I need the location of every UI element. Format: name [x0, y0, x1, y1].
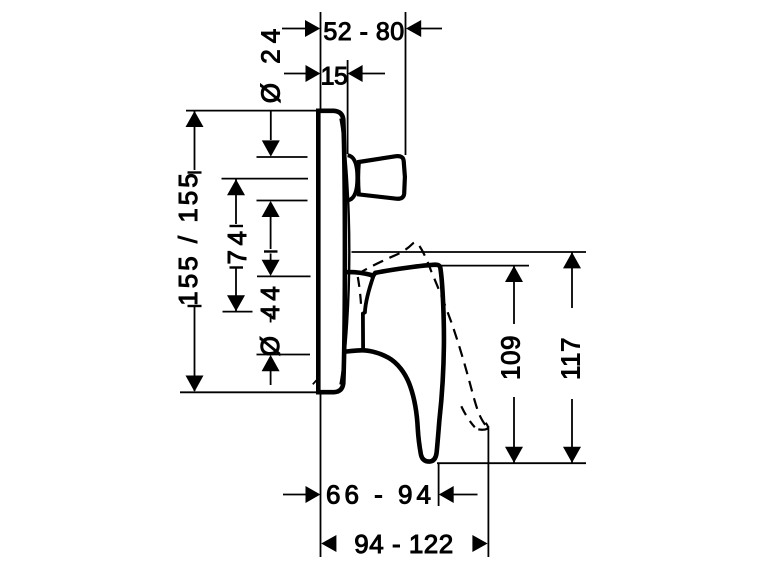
dimension 117 line upper: [571, 252, 573, 308]
knob body: [358, 156, 405, 199]
dimension 52-80 left tail: [282, 28, 306, 30]
dimension 52-80 right arrow: [406, 20, 421, 37]
dimension 94-122 left arrow: [321, 535, 336, 552]
dimension 15 right arrow: [348, 65, 363, 82]
handle collar joint line: [363, 277, 373, 350]
dimension 15 left tail: [284, 73, 307, 75]
svg-text:117: 117: [556, 337, 586, 380]
dimension 117 bottom arrow: [563, 447, 581, 463]
faceplate front rim arc: [341, 119, 350, 385]
extension line 155 bottom: [180, 391, 318, 393]
dashed collar line rotated position: [358, 277, 361, 309]
dimension 94-122 right arrow: [472, 535, 487, 552]
extension line diameter24 bottom / 44 top: [257, 200, 308, 202]
dimension 155 upper break tick: [188, 171, 202, 173]
dimension 155 lower break tick: [188, 305, 202, 307]
inter label tick: [270, 314, 272, 323]
wall reference line upper: [320, 12, 322, 110]
svg-text:109: 109: [496, 335, 526, 380]
dimension 15 left arrow: [306, 65, 321, 82]
dimension 66-94 right arrow: [439, 486, 454, 503]
corner mark at plate bottom: [313, 380, 317, 385]
dimension 117 line lower: [571, 399, 573, 463]
extension line knob axis (74 top): [222, 178, 309, 180]
dimension 44 break tick: [264, 250, 278, 252]
dimension 44 connecting line b: [270, 254, 272, 261]
svg-text:66 - 94: 66 - 94: [326, 480, 435, 510]
svg-text:15: 15: [321, 63, 348, 91]
knob base bump: [348, 155, 358, 200]
extension line 52-80 right: [405, 12, 407, 155]
dimension 109 top arrow: [505, 266, 523, 282]
dimension 74 line lower: [235, 268, 237, 312]
diameter44 bottom arrow tail: [270, 371, 272, 385]
extension line diameter24 top tangent: [257, 156, 308, 158]
svg-text:94 - 122: 94 - 122: [354, 529, 453, 559]
dimension 109 bottom arrow: [505, 447, 523, 463]
dimension 44 connecting line: [270, 216, 272, 249]
dimension 155 line lower: [194, 306, 196, 391]
faceplate outline: [318, 111, 345, 392]
diameter24 hanger line: [270, 111, 272, 140]
extension line 74 bottom: [223, 311, 253, 313]
dimension 74 lower break tick: [230, 266, 244, 268]
dashed tail back edge: [460, 403, 475, 427]
dimension 109 line lower: [513, 397, 515, 463]
svg-text:155 / 155: 155 / 155: [173, 170, 203, 305]
extension line 44 bottom: [257, 275, 311, 277]
dimension 66-94 left tail: [283, 494, 307, 496]
wall reference line lower: [320, 393, 322, 557]
dimension 74 bottom arrow: [227, 295, 245, 311]
dimension 52-80 right tail: [421, 28, 442, 30]
dimension 15 right tail: [363, 73, 386, 75]
extension line 15 right: [347, 60, 349, 154]
extension line diameter44 bottom: [257, 354, 311, 356]
dimension 155 bottom arrow: [186, 376, 204, 392]
extension line 94-122 right: [487, 426, 489, 557]
extension line 117 top: [352, 251, 587, 253]
dimension 44 bottom arrow: [262, 260, 280, 276]
dimension 66-94 left arrow: [306, 486, 321, 503]
extension line bottom shared: [437, 462, 586, 464]
dimension 66-94 right tail: [454, 494, 478, 496]
svg-text:52 - 80: 52 - 80: [323, 18, 404, 46]
dimension 74 top arrow: [227, 179, 245, 195]
dashed handle rotated position: [360, 242, 486, 425]
dimension 44 top arrow: [262, 201, 280, 217]
dimension 74 upper break tick: [230, 225, 244, 227]
extension line 109 top: [440, 265, 529, 267]
diameter44 bottom arrow: [262, 355, 280, 371]
handle lever outline: [344, 265, 444, 462]
svg-text:Ø 24: Ø 24: [256, 23, 286, 103]
dimension 117 top arrow: [563, 252, 581, 268]
dimension 74 line upper: [235, 179, 237, 224]
extension line 155 top: [186, 110, 318, 112]
dimension 155 line upper: [194, 111, 196, 170]
dimension 52-80 left arrow: [305, 20, 320, 37]
dimension 155 top arrow: [186, 111, 204, 127]
extension line 66-94 right: [438, 463, 440, 506]
svg-text:74: 74: [222, 227, 252, 265]
dimension 109 line upper: [513, 266, 515, 324]
diameter24 top arrow: [262, 140, 280, 156]
dashed handle tip hook: [474, 423, 488, 430]
